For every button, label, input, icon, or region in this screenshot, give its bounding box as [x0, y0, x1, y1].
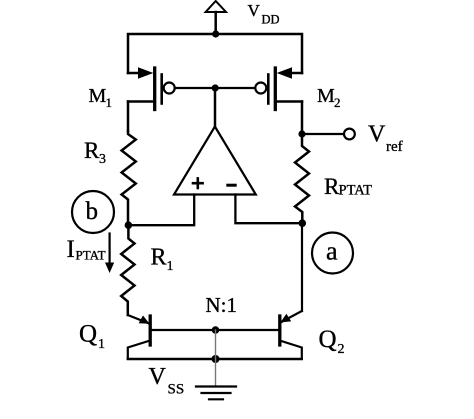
node bottom rail junction — [212, 355, 220, 363]
node a junction — [299, 219, 307, 227]
wire node a to Q2 emitter — [301, 223, 303, 311]
transistor M1 — [128, 67, 175, 131]
svg-text:2: 2 — [338, 342, 345, 357]
svg-text:1: 1 — [106, 95, 113, 110]
svg-text:1: 1 — [167, 259, 174, 274]
label R3 — [84, 138, 106, 167]
resistor RPTAT — [295, 134, 309, 223]
label VDD — [248, 1, 280, 27]
label Q2 — [319, 326, 345, 357]
node a circle — [312, 233, 353, 274]
svg-text:N:1: N:1 — [206, 293, 238, 317]
label IPTAT — [67, 236, 106, 263]
wire base bus to ground — [215, 330, 217, 386]
label M1 — [89, 85, 113, 110]
svg-text:M: M — [317, 85, 335, 107]
current arrow IPTAT — [105, 234, 114, 274]
svg-text:1: 1 — [98, 337, 105, 352]
svg-text:R: R — [151, 245, 167, 271]
label VSS — [149, 364, 185, 398]
svg-text:I: I — [67, 236, 75, 263]
svg-text:V: V — [368, 122, 386, 148]
wire gate bus M1 to M2 — [175, 87, 256, 89]
svg-text:PTAT: PTAT — [339, 183, 373, 199]
svg-text:V: V — [248, 1, 261, 20]
node gate bus junction — [212, 84, 219, 91]
svg-text:R: R — [84, 138, 100, 163]
svg-text:SS: SS — [168, 382, 185, 398]
label R1 — [151, 245, 174, 275]
svg-text:a: a — [326, 237, 338, 266]
svg-text:ref: ref — [386, 139, 403, 155]
wire M2 drain to Vref node — [298, 130, 305, 137]
svg-text:M: M — [89, 85, 107, 107]
label M2 — [317, 85, 341, 110]
transistor M2 — [255, 67, 302, 134]
node b junction — [125, 221, 133, 229]
svg-text:PTAT: PTAT — [76, 248, 106, 263]
wire VDD symbol to top rail — [214, 12, 217, 34]
node base bus junction — [212, 326, 220, 334]
wire Vref node to terminal — [302, 133, 344, 135]
label RPTAT — [324, 174, 372, 199]
transistor Q2 — [216, 311, 302, 359]
svg-text:2: 2 — [334, 95, 341, 110]
op-amp U1 — [174, 127, 256, 195]
node b circle — [72, 191, 114, 233]
svg-text:3: 3 — [99, 152, 106, 167]
svg-text:b: b — [86, 198, 99, 225]
wire bottom rail — [128, 358, 302, 360]
wire op-amp output to gate bus — [214, 88, 217, 127]
power symbol VDD triangle — [206, 1, 226, 12]
svg-text:V: V — [149, 364, 167, 390]
svg-text:Q: Q — [79, 321, 97, 348]
wire op-amp - input to node a — [235, 195, 302, 224]
node top rail junction — [212, 30, 219, 37]
resistor R3 — [122, 131, 136, 225]
resistor R1 — [121, 225, 134, 315]
svg-text:Q: Q — [319, 326, 337, 353]
label Q1 — [79, 321, 105, 353]
svg-text:DD: DD — [262, 13, 280, 27]
wire top rail — [128, 34, 302, 73]
label Vref — [368, 122, 403, 156]
transistor Q1 — [128, 315, 216, 359]
wire op-amp + input to node b — [128, 195, 194, 226]
ground symbol — [196, 387, 236, 400]
terminal Vref — [344, 129, 355, 140]
